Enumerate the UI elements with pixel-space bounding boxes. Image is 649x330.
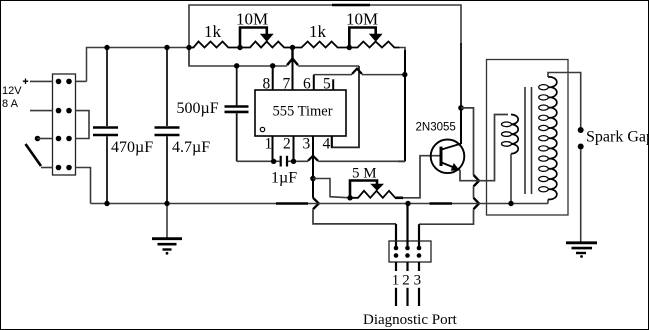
wire thick segment 5M output [395, 197, 403, 200]
port external pin 2 [406, 288, 408, 306]
potentiometer 10M (right) zigzag [349, 42, 399, 48]
wire switch terminal to row3 [38, 138, 53, 140]
wire collector feed vertical [460, 43, 462, 108]
wire emitter to transformer primary [460, 115, 508, 181]
wire 5M to transistor base [395, 156, 441, 198]
wire pin7 riser to junction [291, 48, 293, 63]
connector pins row2 [56, 108, 72, 114]
connector pins row1 [56, 79, 72, 85]
svg-text:1µF: 1µF [271, 170, 297, 187]
svg-text:Diagnostic Port: Diagnostic Port [363, 312, 458, 328]
svg-text:8 A: 8 A [2, 98, 19, 110]
svg-text:500µF: 500µF [177, 100, 219, 117]
svg-text:5 M: 5 M [352, 166, 377, 182]
svg-text:1: 1 [265, 136, 273, 153]
wire top supply line y=5 [189, 5, 461, 66]
ground (right) [566, 243, 597, 258]
wire hop monitor drop over ground rail [474, 198, 480, 209]
wire pin3 to diagnostic port pin1 [313, 209, 396, 224]
wire ground rail to port pin2 [406, 204, 408, 249]
svg-text:3: 3 [303, 136, 311, 153]
label port pins 1 2 3 [392, 273, 421, 289]
wire rail right end up to secondary [547, 199, 549, 203]
node junctions on rails [104, 45, 513, 206]
transformer core lines [525, 87, 532, 194]
svg-text:555 Timer: 555 Timer [273, 104, 333, 120]
wire switch to row4 [41, 167, 53, 169]
wire rail thick segment right [430, 202, 453, 205]
port external pin 1 [395, 288, 397, 306]
wire spark gap to ground [580, 149, 582, 242]
spark gap electrode bottom [578, 144, 584, 150]
svg-text:1k: 1k [204, 22, 222, 41]
connector J1 box [53, 74, 76, 175]
wire monitor drop middle [473, 186, 475, 197]
wire row2-row3 jumper [76, 111, 90, 139]
pin 5 stub [332, 79, 334, 90]
svg-text:4: 4 [323, 136, 331, 153]
wire hop pin3 drop over ground rail [313, 198, 319, 209]
port pin stubs below box [396, 262, 419, 271]
svg-text:4.7µF: 4.7µF [172, 139, 210, 156]
wire Vcc bus y=66 [189, 48, 359, 67]
wire trigger/threshold line y=161.3 [237, 160, 405, 162]
wire 8A row2 [30, 110, 53, 112]
potentiometer 10M (right) wiper bracket and arrow [349, 28, 382, 48]
wire row4 to ground rail [76, 168, 91, 204]
wire pin2/6 node horizontal into 555 area [398, 160, 405, 162]
wire hop monitor drop over emitter line [474, 175, 480, 186]
potentiometer 5M zigzag [350, 191, 395, 198]
spark gap electrode top [578, 127, 584, 133]
switch blade [26, 144, 42, 166]
pin1 index circle [260, 127, 264, 131]
potentiometer 5M wiper bracket and arrow [350, 181, 384, 198]
potentiometer 10M (left) zigzag [240, 42, 293, 48]
pin 3 stub [312, 136, 314, 198]
capacitor C 1uF plates [281, 156, 287, 167]
capacitor C 500uF [225, 66, 249, 161]
svg-text:3: 3 [414, 273, 422, 289]
connector pins row3 [56, 136, 72, 142]
wire +12V rail y=47.5 [87, 48, 194, 82]
transistor Q1 2N3055 [431, 140, 465, 174]
capacitor C 4.7uF [155, 48, 180, 204]
transformer box [487, 60, 569, 216]
node collector junction [458, 105, 464, 111]
svg-text:2: 2 [402, 273, 410, 289]
wire ground rail y=203.5 [91, 203, 549, 205]
inductor primary winding [502, 115, 519, 154]
svg-text:2N3055: 2N3055 [416, 122, 456, 134]
pin 7 stub [292, 62, 294, 90]
wire secondary top to spark gap [548, 73, 581, 128]
svg-text:8: 8 [263, 76, 271, 93]
wire monitor drop to diagnostic port pin3 [419, 209, 474, 224]
svg-text:12V: 12V [2, 85, 22, 97]
wire port pin1 drop [395, 224, 397, 248]
pin 1 stub [272, 136, 274, 161]
diagnostic port pin dots [394, 246, 422, 258]
pin 4 stub [331, 136, 333, 147]
svg-text:2: 2 [283, 136, 291, 153]
node junction pin3 branch [310, 176, 316, 182]
wire top line thick segment [332, 4, 370, 7]
connector pins row4 [56, 165, 72, 171]
wire hop pin7 over bus [287, 59, 298, 66]
resistor 1k (right) [293, 42, 350, 48]
svg-text:10M: 10M [346, 10, 378, 29]
potentiometer 10M (left) wiper bracket and arrow [240, 28, 274, 48]
wire collector vertical [460, 108, 462, 144]
pin 2 stub [293, 136, 295, 161]
wire primary bottom to ground rail [510, 154, 512, 204]
port external pin 3 [418, 288, 420, 306]
ground (center) [152, 204, 182, 255]
wire bus end down to pin4 [332, 66, 359, 147]
node switch terminal [35, 136, 41, 142]
svg-text:470µF: 470µF [111, 139, 153, 156]
svg-text:1k: 1k [309, 22, 327, 41]
wire hop pin6 line over bus drop [352, 69, 362, 74]
wire rail thick segment left [276, 202, 308, 205]
pin 8 stub [272, 66, 274, 90]
capacitor C 470uF [93, 48, 118, 204]
wire pot2 right end down to pin6 node [399, 48, 405, 53]
wire pin6 line y=74.6 [314, 75, 405, 90]
wire pin2/6 node vertical [404, 50, 406, 161]
svg-text:1: 1 [392, 273, 400, 289]
wire row1 to +12V rail [76, 80, 87, 82]
IC U1 555 timer box [255, 90, 346, 136]
wire port pin3 drop [418, 224, 420, 248]
svg-text:7: 7 [283, 76, 291, 93]
wire pin3 branch to 5M pot [313, 179, 350, 198]
svg-text:5: 5 [323, 76, 331, 93]
label 12V+ [2, 79, 28, 98]
wire collector node to monitor drop [461, 108, 474, 175]
wire 12V row1 [30, 80, 53, 82]
resistor 1k (left) [189, 42, 240, 48]
wire hop 161-line over pin3 drop [308, 156, 318, 161]
svg-text:Spark Gap: Spark Gap [586, 129, 649, 146]
svg-text:6: 6 [303, 76, 311, 93]
diagnostic port box [389, 241, 431, 262]
inductor secondary winding [539, 77, 557, 200]
svg-text:10M: 10M [236, 10, 268, 29]
